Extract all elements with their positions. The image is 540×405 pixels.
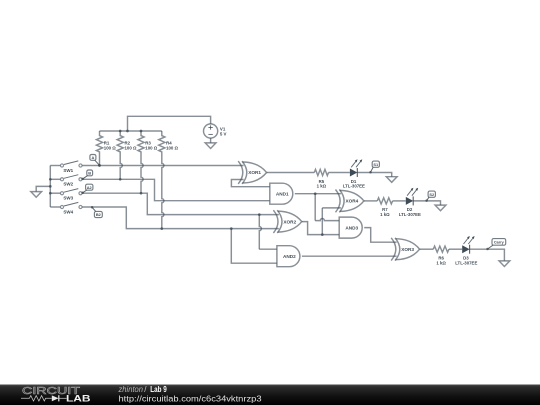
svg-text:AND1: AND1 (276, 191, 289, 196)
svg-text:LTL-307EE: LTL-307EE (399, 212, 421, 217)
svg-text:1 kΩ: 1 kΩ (380, 212, 390, 217)
svg-text:zhinton: zhinton (118, 385, 144, 394)
svg-text:100 Ω: 100 Ω (104, 146, 116, 151)
svg-text:100 Ω: 100 Ω (145, 146, 157, 151)
svg-text:100 Ω: 100 Ω (125, 146, 137, 151)
svg-text:B: B (88, 170, 91, 175)
svg-text:http://circuitlab.com/c6c34vkt: http://circuitlab.com/c6c34vktnrzp3 (119, 395, 263, 404)
svg-text:XOR3: XOR3 (401, 247, 414, 252)
svg-text:1 kΩ: 1 kΩ (436, 260, 446, 265)
svg-text:LTL-307EE: LTL-307EE (455, 260, 477, 265)
svg-text:B2: B2 (96, 212, 102, 217)
svg-text:XOR4: XOR4 (346, 199, 359, 204)
svg-text:A: A (91, 155, 94, 160)
svg-text:AND3: AND3 (345, 225, 358, 230)
svg-text:LTL-307EE: LTL-307EE (343, 184, 365, 189)
svg-text:Carry: Carry (494, 241, 505, 245)
svg-text:LAB: LAB (66, 393, 91, 403)
svg-text:SW3: SW3 (63, 196, 73, 201)
svg-text:SW2: SW2 (63, 182, 73, 187)
svg-text:100 Ω: 100 Ω (166, 146, 178, 151)
svg-text:AND2: AND2 (283, 254, 296, 259)
svg-text:S1: S1 (373, 162, 379, 167)
svg-text:S2: S2 (429, 192, 435, 197)
svg-text:A2: A2 (87, 185, 93, 190)
svg-text:XOR2: XOR2 (283, 219, 296, 224)
svg-text:XOR1: XOR1 (248, 170, 261, 175)
svg-text:Lab 9: Lab 9 (150, 385, 167, 394)
svg-text:SW1: SW1 (63, 168, 73, 173)
svg-text:1 kΩ: 1 kΩ (317, 184, 327, 189)
svg-text:5 V: 5 V (220, 131, 227, 136)
svg-text:SW4: SW4 (63, 209, 73, 214)
